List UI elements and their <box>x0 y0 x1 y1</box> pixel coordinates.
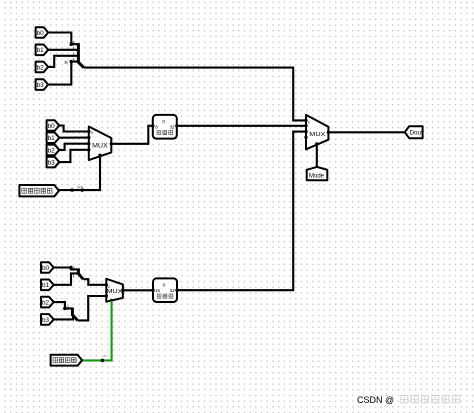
op MUX3 2:1 halfword select <box>106 279 123 302</box>
wire S2 to MUX3 in0 <box>83 279 106 285</box>
wire b1 to MUX1 in1 <box>59 137 89 139</box>
op MUX2 4:1 output select <box>306 115 328 149</box>
svg-text:0: 0 <box>67 305 69 309</box>
svg-text:Mode: Mode <box>309 174 325 180</box>
svg-text:32: 32 <box>170 125 175 130</box>
junction on select wire <box>71 188 74 191</box>
tunnel b3 bottom <box>41 314 54 325</box>
wire b2 to splitter S1 <box>48 56 79 67</box>
wire MUX3 select (green 1-bit) <box>82 300 111 360</box>
MUX2 select port <box>315 142 318 145</box>
tunnel halfword-address label <box>51 355 83 366</box>
svg-text:b0: b0 <box>42 265 50 272</box>
tunnel b0 middle <box>47 120 60 131</box>
svg-text:b2: b2 <box>48 147 56 154</box>
svg-text:3: 3 <box>73 58 75 62</box>
MUX3 output port <box>121 289 124 292</box>
wire MUX1 out to extender U1 <box>111 126 153 144</box>
wire b3 to MUX1 in3 <box>59 150 89 162</box>
svg-text:b3: b3 <box>48 160 56 167</box>
U2 output port <box>175 289 178 292</box>
tunnel b0 top <box>36 27 49 38</box>
wire b1 to splitter S2 <box>54 273 79 284</box>
tunnel b1 top <box>36 45 49 56</box>
junction on green wire <box>101 359 105 363</box>
svg-text:b3: b3 <box>37 82 45 89</box>
svg-text:b1: b1 <box>48 135 56 142</box>
svg-text:0: 0 <box>73 41 75 45</box>
svg-text:0: 0 <box>308 120 310 124</box>
watermark CSDN <box>357 395 459 405</box>
svg-text:0: 0 <box>108 285 110 289</box>
wire b3 to splitter S3 <box>54 315 73 320</box>
MUX2 input ports <box>304 119 307 139</box>
wire U1 out to MUX2 in1 <box>177 125 306 127</box>
junction b2 corner <box>63 307 67 311</box>
anchor caret green wire <box>104 355 107 357</box>
svg-text:b3: b3 <box>42 317 50 324</box>
bit extender U1 <box>153 115 177 139</box>
tunnel b3 top <box>36 79 49 90</box>
svg-text:Dout: Dout <box>410 130 423 137</box>
tunnel Mode <box>307 167 328 180</box>
svg-text:1: 1 <box>73 274 75 278</box>
op MUX1 4:1 byte select <box>89 127 112 161</box>
wire b2 to MUX1 in2 <box>59 144 89 150</box>
svg-text:MUX: MUX <box>92 143 108 149</box>
tunnel byte-address label <box>19 185 59 196</box>
U1 input port <box>151 124 154 127</box>
tunnel b0 bottom <box>41 262 54 273</box>
MUX1 output port <box>110 142 113 145</box>
wire b2 to splitter S3 <box>54 302 73 308</box>
svg-text:0: 0 <box>162 119 165 125</box>
wire b0 to MUX1 in0 <box>59 126 89 132</box>
wire U2 out to MUX2 in2 <box>177 132 306 291</box>
MUX1 input ports <box>87 130 90 152</box>
svg-text:2: 2 <box>73 52 75 56</box>
svg-text:1: 1 <box>74 315 76 319</box>
tunnel b1 bottom <box>41 280 54 291</box>
wire S3 to MUX3 in1 <box>78 296 106 320</box>
wire b0 to splitter S2 <box>54 268 79 270</box>
wire b3 to splitter S1 <box>48 62 79 85</box>
splitter S2 bit labels <box>73 266 75 279</box>
svg-text:b0: b0 <box>37 30 45 37</box>
tunnel b1 middle <box>47 132 60 143</box>
splitter S1 bit labels <box>73 41 75 62</box>
svg-text:16: 16 <box>155 288 160 293</box>
wire b1 to splitter S1 <box>48 49 79 51</box>
MUX2 output port <box>327 131 330 134</box>
splitter S3 spine <box>72 308 77 321</box>
tunnel b2 bottom <box>41 297 54 308</box>
tunnel b2 middle <box>47 145 60 156</box>
svg-text:MUX: MUX <box>309 132 325 138</box>
wire MUX1 select <box>59 155 100 190</box>
svg-text:b1: b1 <box>37 47 45 54</box>
junction b0 corner <box>69 266 73 270</box>
wire S1 to MUX2 input0 <box>84 68 306 121</box>
svg-text:0: 0 <box>73 266 75 270</box>
wire MUX2 out to Dout <box>328 131 404 133</box>
svg-text:b2: b2 <box>37 64 45 71</box>
svg-text:1: 1 <box>73 46 75 50</box>
splitter S1 spine <box>78 43 83 67</box>
junction b3/S1 <box>70 60 74 64</box>
svg-text:b0: b0 <box>48 123 56 130</box>
splitter S3 bit labels <box>67 305 76 319</box>
svg-text:b2: b2 <box>42 300 50 307</box>
U2 input port <box>151 289 154 292</box>
tunnel b3 middle <box>47 157 60 168</box>
splitter S2 spine <box>78 268 83 279</box>
junction b0/S1 <box>70 42 74 46</box>
anchor carets <box>77 186 83 188</box>
MUX3 select port <box>110 299 113 302</box>
bit extender U2 <box>153 278 177 302</box>
wire b0 to splitter S1 <box>48 33 79 45</box>
MUX3 input ports <box>105 283 108 298</box>
svg-text:MUX: MUX <box>107 289 124 295</box>
svg-text:b1: b1 <box>42 282 50 289</box>
anchor mark x <box>65 61 68 64</box>
MUX1 select port <box>98 154 101 157</box>
wire MUX2 select to Mode <box>316 144 318 167</box>
svg-text:CSDN @: CSDN @ <box>357 395 394 405</box>
tunnel Dout <box>405 126 423 138</box>
svg-text:0: 0 <box>163 283 166 289</box>
junction on select wire <box>81 188 84 191</box>
tunnel b2 top <box>36 62 49 73</box>
wire MUX3 out to extender U2 <box>123 289 153 291</box>
svg-text:0: 0 <box>91 131 93 135</box>
U1 output port <box>175 124 178 127</box>
svg-text:32: 32 <box>170 288 175 293</box>
